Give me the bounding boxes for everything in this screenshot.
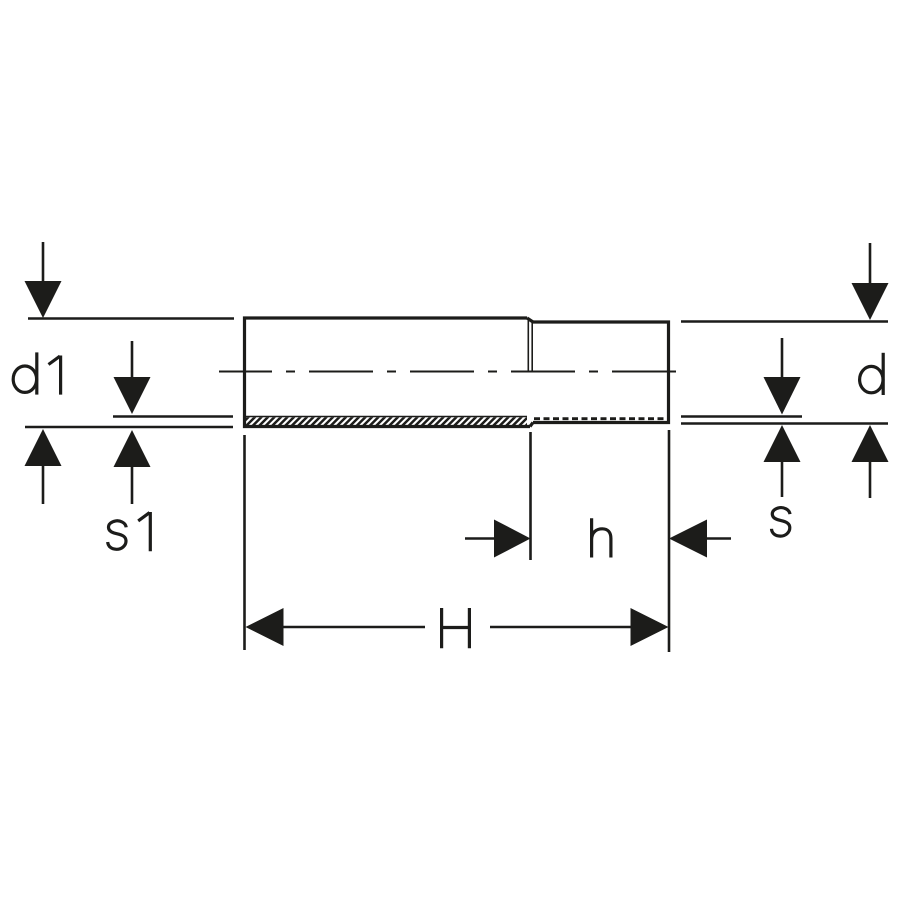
d1 arrow stem top xyxy=(42,242,45,283)
s arrow stem top xyxy=(781,338,784,379)
extension line s1 bore left xyxy=(113,415,233,418)
s1 down arrowhead xyxy=(114,377,151,414)
H right arrowhead xyxy=(631,608,669,646)
s1 up arrowhead xyxy=(114,430,151,467)
d1 up arrowhead xyxy=(25,429,62,466)
label d1 digit 1 xyxy=(49,356,61,395)
extension line d1 top left xyxy=(28,317,234,320)
bore line left section xyxy=(245,416,528,418)
label s1 letter s xyxy=(108,521,127,550)
h left arrowhead xyxy=(494,520,531,558)
label d letter d bowl xyxy=(860,366,883,392)
s arrow stem bottom xyxy=(781,462,784,497)
body bottom step xyxy=(530,423,533,427)
extension line h step vertical xyxy=(529,432,532,560)
d up arrowhead xyxy=(852,425,889,462)
s up arrowhead xyxy=(764,425,801,462)
label H xyxy=(442,608,470,648)
d1 down arrowhead xyxy=(25,281,62,318)
h right arrowhead xyxy=(669,520,707,558)
s down arrowhead xyxy=(764,377,801,415)
body outline left section (socket) xyxy=(245,318,531,427)
d1 arrow stem bottom xyxy=(42,466,45,504)
label h xyxy=(592,518,611,557)
body outline right section (pipe end) xyxy=(533,322,669,423)
label d1 letter d stem xyxy=(35,352,38,394)
thin wall dashed band right section xyxy=(534,417,667,420)
h dim tail right xyxy=(706,537,731,540)
extension line d bottom right xyxy=(681,422,888,425)
s1 arrow stem top xyxy=(131,341,134,379)
body step chamfer top xyxy=(527,318,533,322)
extension line d1 bottom left xyxy=(25,426,233,429)
extension line H right vertical xyxy=(668,430,671,652)
extension line d top right xyxy=(681,320,888,323)
h dim tail left xyxy=(465,537,495,540)
d arrow stem bottom xyxy=(869,462,872,498)
d down arrowhead xyxy=(852,283,889,320)
H left arrowhead xyxy=(246,608,284,646)
H dim line right part xyxy=(490,626,632,629)
H dim line left part xyxy=(282,626,425,629)
d arrow stem top xyxy=(869,243,872,285)
extension line s bore right xyxy=(681,415,802,418)
centerline xyxy=(219,371,688,373)
label d letter d stem xyxy=(882,353,885,395)
extension line H left vertical xyxy=(243,435,246,650)
hatch band left section xyxy=(238,417,542,428)
socket mouth double line xyxy=(527,319,529,371)
label s letter s xyxy=(772,508,791,537)
s1 arrow stem bottom xyxy=(131,466,134,504)
label d1 letter d bowl xyxy=(13,366,36,392)
label s1 digit 1 xyxy=(138,512,150,551)
